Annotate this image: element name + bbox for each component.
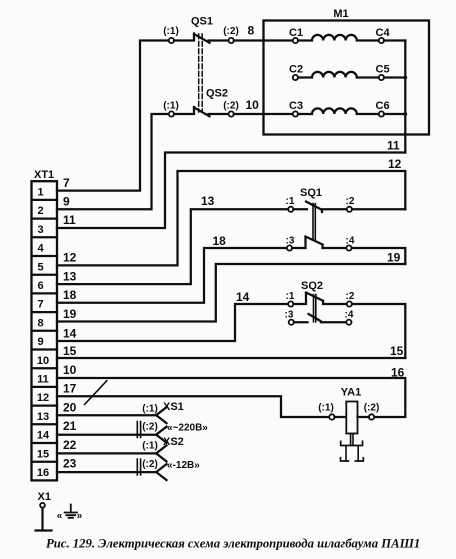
svg-text:13: 13: [201, 194, 215, 208]
svg-text:13: 13: [63, 270, 77, 284]
svg-text:(:2): (:2): [223, 26, 239, 37]
svg-text:9: 9: [37, 336, 43, 348]
svg-text:2: 2: [37, 205, 43, 217]
svg-text:11: 11: [63, 213, 76, 227]
svg-text:XT1: XT1: [34, 169, 54, 181]
svg-text:14: 14: [236, 290, 250, 304]
svg-text:11: 11: [387, 139, 400, 153]
svg-text:(:1): (:1): [142, 404, 158, 415]
svg-text:19: 19: [63, 307, 77, 321]
svg-text::2: :2: [346, 291, 355, 302]
svg-text:15: 15: [390, 344, 404, 358]
svg-text::1: :1: [286, 196, 295, 207]
svg-text:15: 15: [37, 448, 49, 460]
svg-text:12: 12: [63, 251, 77, 265]
svg-text:(:1): (:1): [163, 26, 179, 37]
svg-text:C4: C4: [376, 27, 391, 39]
svg-text:«: «: [57, 511, 63, 522]
svg-text:22: 22: [63, 438, 77, 452]
svg-text:6: 6: [37, 280, 43, 292]
svg-text:C5: C5: [376, 64, 390, 76]
svg-text:(:2): (:2): [364, 403, 380, 414]
svg-text:14: 14: [63, 326, 77, 340]
svg-text:YA1: YA1: [341, 387, 361, 399]
svg-text:M1: M1: [333, 8, 348, 20]
svg-text:XS2: XS2: [163, 436, 184, 448]
svg-text:(:1): (:1): [163, 101, 179, 112]
svg-text:C1: C1: [289, 27, 303, 39]
svg-text:QS1: QS1: [191, 16, 213, 28]
svg-text:(:1): (:1): [142, 441, 158, 452]
svg-text:(:2): (:2): [142, 422, 158, 433]
svg-text:15: 15: [63, 344, 77, 358]
svg-text::4: :4: [345, 310, 354, 321]
svg-text:Рис. 129. Электрическая схема: Рис. 129. Электрическая схема электропри…: [46, 537, 420, 551]
svg-text::3: :3: [285, 310, 294, 321]
svg-text:13: 13: [37, 411, 49, 423]
svg-text:18: 18: [63, 288, 77, 302]
svg-text::4: :4: [346, 235, 355, 246]
svg-text::3: :3: [286, 235, 295, 246]
svg-text:8: 8: [248, 24, 255, 38]
svg-text:(:2): (:2): [142, 459, 158, 470]
svg-text:10: 10: [37, 355, 49, 367]
svg-text:«-12В»: «-12В»: [167, 460, 200, 471]
svg-text:10: 10: [63, 363, 77, 377]
svg-text:C6: C6: [376, 100, 390, 112]
svg-text:16: 16: [391, 366, 405, 380]
svg-text:«~220В»: «~220В»: [167, 423, 208, 434]
svg-text:18: 18: [213, 234, 227, 248]
svg-text:C2: C2: [289, 64, 303, 76]
svg-text:11: 11: [37, 374, 49, 386]
svg-text:7: 7: [63, 176, 70, 190]
svg-text:(:1): (:1): [318, 403, 334, 414]
svg-text:10: 10: [246, 98, 260, 112]
svg-text:SQ2: SQ2: [301, 280, 323, 292]
svg-text:C3: C3: [289, 100, 303, 112]
svg-text:(:2): (:2): [223, 101, 239, 112]
svg-text:QS2: QS2: [206, 88, 228, 100]
svg-text::2: :2: [346, 196, 355, 207]
svg-text:»: »: [77, 511, 83, 522]
svg-text:3: 3: [37, 224, 43, 236]
svg-text:4: 4: [37, 243, 44, 255]
svg-text:12: 12: [37, 392, 49, 404]
svg-text:16: 16: [37, 467, 49, 479]
svg-text:20: 20: [63, 401, 77, 415]
svg-text:1: 1: [37, 187, 43, 199]
svg-text:14: 14: [37, 430, 50, 442]
svg-text:SQ1: SQ1: [300, 187, 322, 199]
svg-text:7: 7: [37, 299, 43, 311]
svg-text::1: :1: [286, 291, 295, 302]
svg-text:23: 23: [63, 457, 77, 471]
svg-text:5: 5: [37, 261, 43, 273]
svg-text:X1: X1: [38, 491, 51, 503]
svg-text:19: 19: [387, 251, 401, 265]
svg-text:XS1: XS1: [163, 401, 184, 413]
svg-text:9: 9: [63, 195, 70, 209]
svg-text:21: 21: [63, 419, 77, 433]
svg-text:12: 12: [388, 157, 402, 171]
svg-text:17: 17: [63, 382, 77, 396]
svg-text:8: 8: [37, 317, 43, 329]
